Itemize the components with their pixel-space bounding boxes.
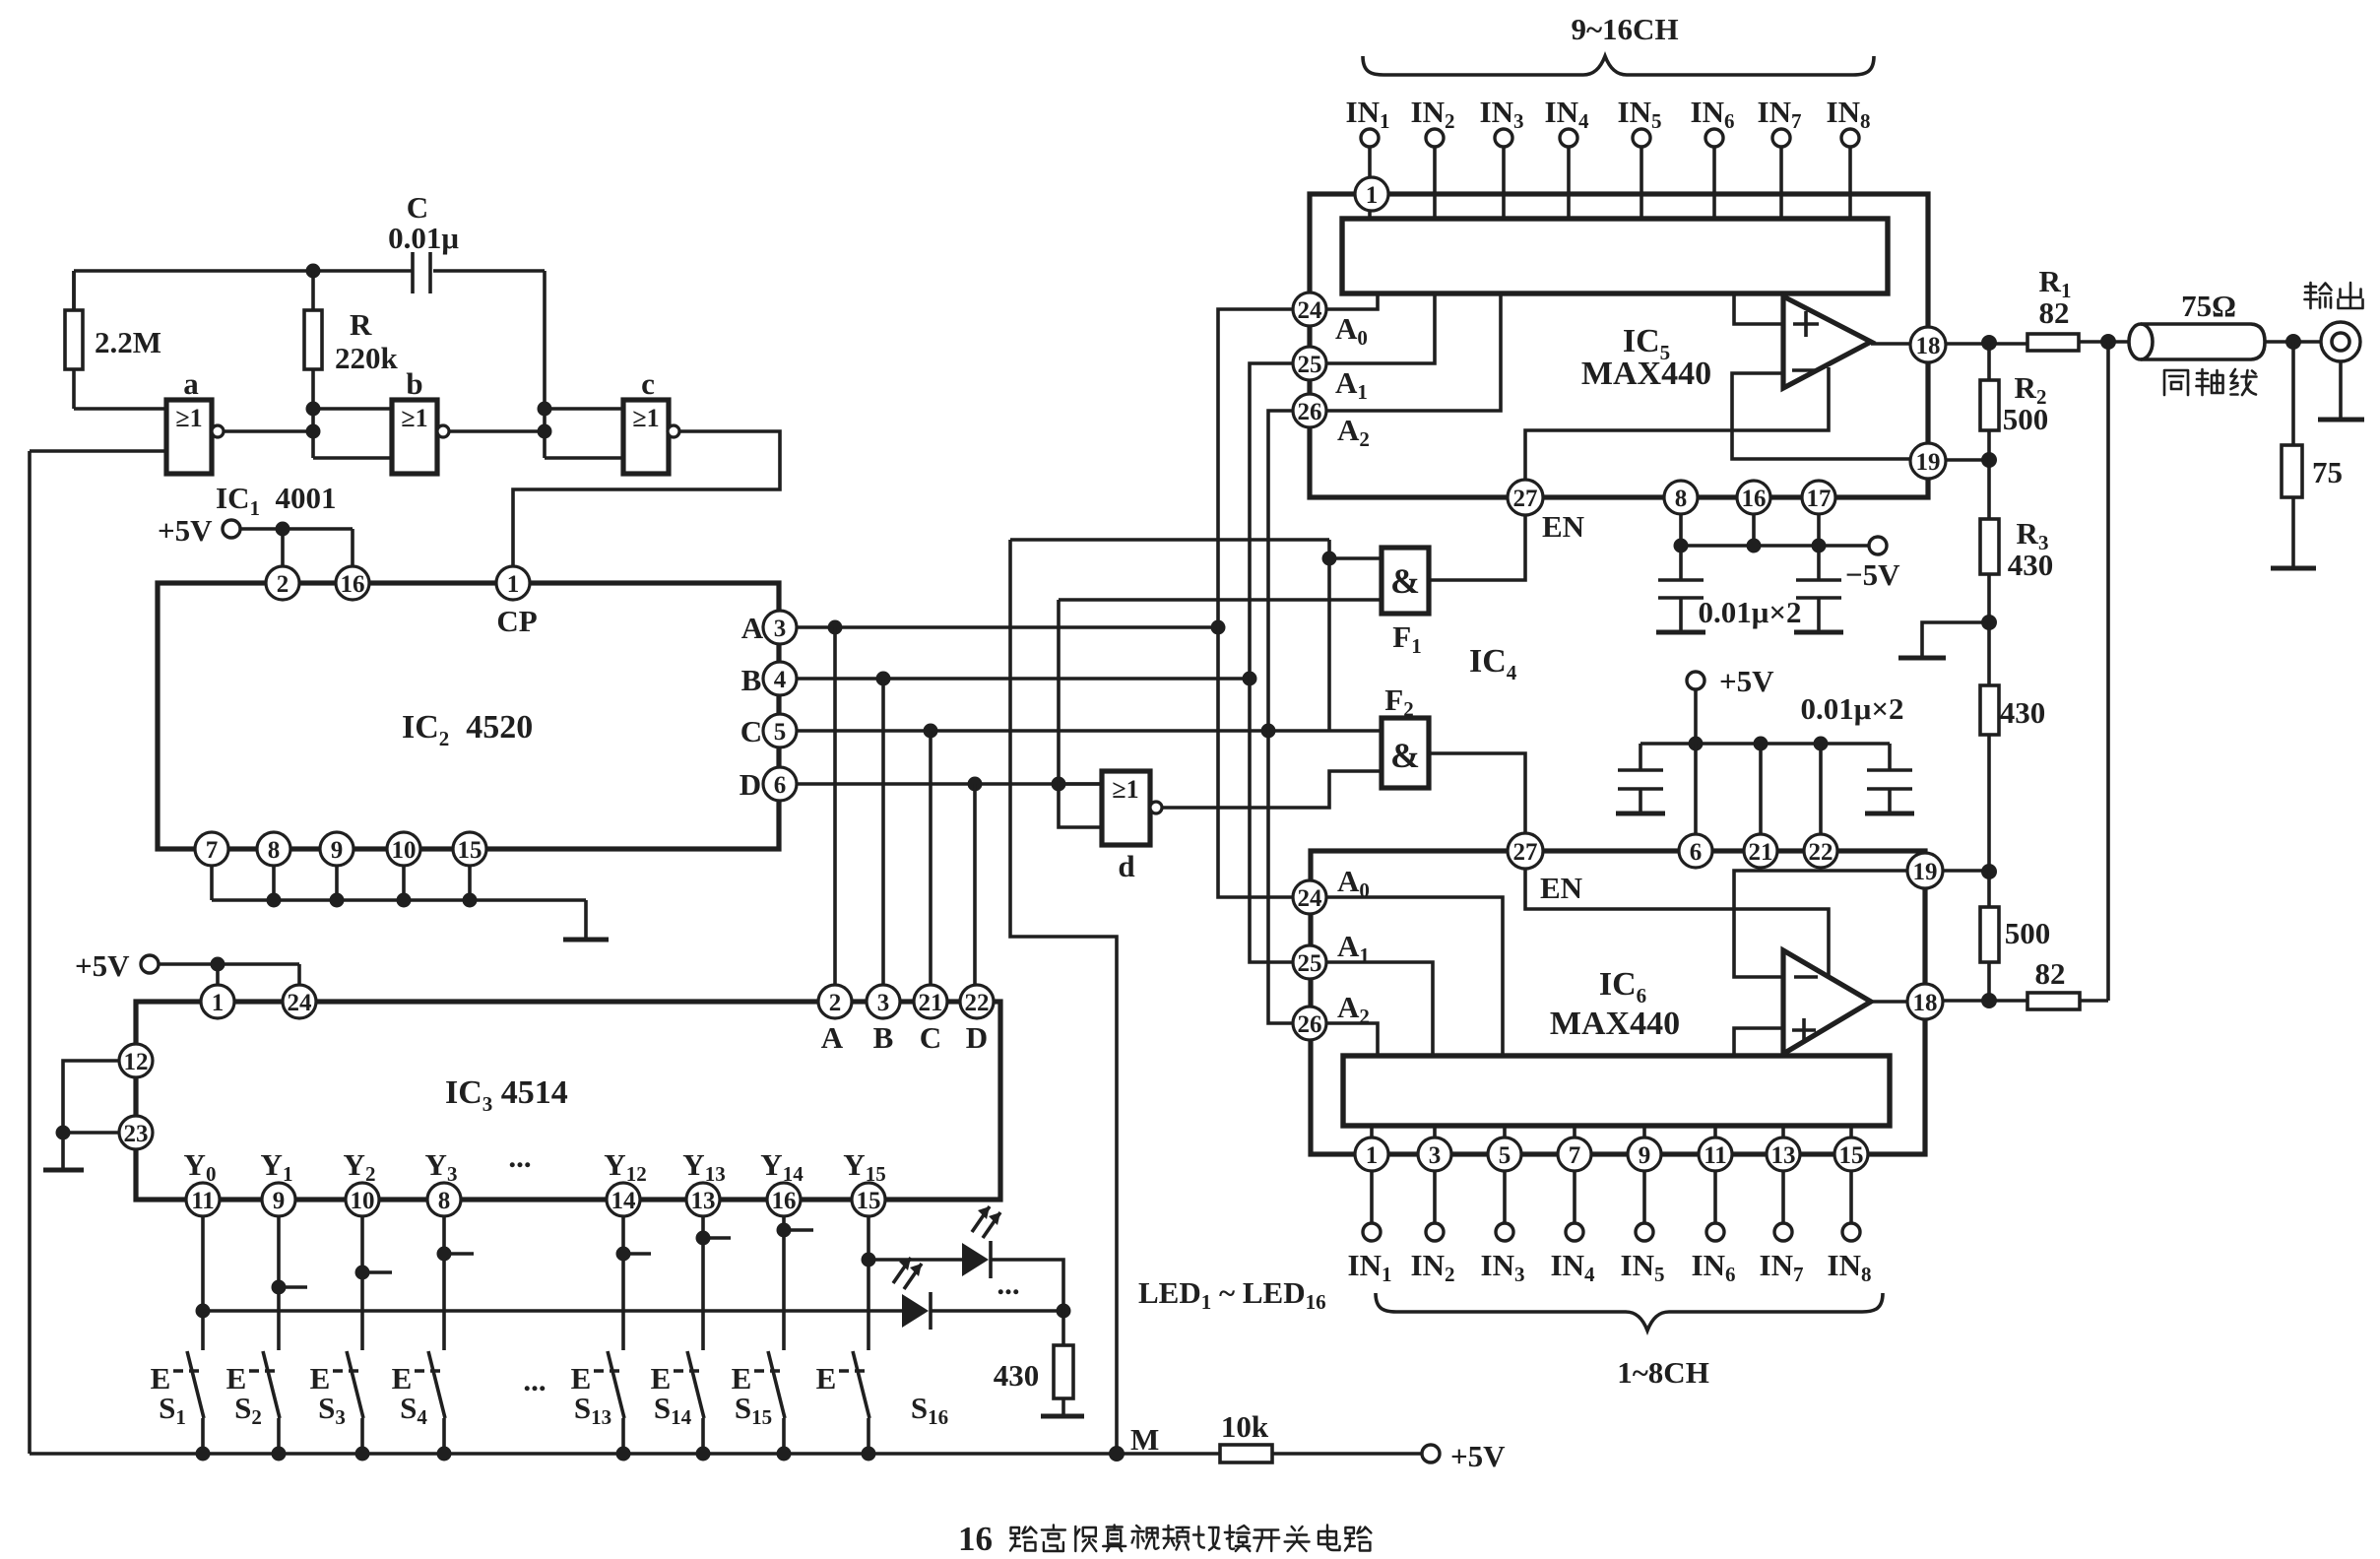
svg-text:MAX440: MAX440 [1581, 356, 1711, 392]
wire Y1 column with tap [272, 1216, 308, 1350]
resistor R3 430 [1980, 460, 2053, 622]
capacitor C6b [1865, 744, 1914, 813]
svg-text:MAX440: MAX440 [1550, 1006, 1680, 1042]
wire mux to opamp + [1734, 293, 1783, 324]
pin 6 IC6 [1679, 834, 1712, 868]
LED bus wire [203, 1304, 1071, 1319]
svg-text:7: 7 [206, 837, 219, 864]
svg-text:M: M [1130, 1422, 1159, 1457]
pin 9 [320, 832, 354, 866]
svg-text:5: 5 [774, 719, 787, 746]
svg-text:6: 6 [1690, 839, 1703, 866]
svg-text:≥1: ≥1 [1112, 775, 1138, 804]
pin 3 B [867, 985, 900, 1055]
node before gate b [306, 402, 393, 459]
wire top feedback rail [74, 271, 545, 310]
wire A2 into mux IC5 [1327, 293, 1501, 411]
op-amp U5 [1783, 296, 1871, 388]
svg-text:24: 24 [288, 990, 313, 1016]
pin B 4 [741, 662, 797, 697]
LED1 diode [962, 1206, 1020, 1301]
wire A1 into mux IC6 [1327, 962, 1433, 1056]
pin 16 [767, 1183, 801, 1216]
wire right riser to lower 82 [2106, 342, 2110, 1001]
svg-text:82: 82 [2035, 956, 2066, 991]
IN1-IN8 top terminals [1361, 129, 1859, 147]
svg-text:21: 21 [919, 990, 943, 1016]
svg-text:EN: EN [1540, 871, 1582, 905]
wire F1 out to IC5 EN [1429, 515, 1525, 580]
svg-text:22: 22 [965, 990, 990, 1016]
pin 7 IC6 [1558, 1137, 1591, 1171]
wire F select vertical [1322, 540, 1383, 731]
svg-text:C: C [740, 714, 762, 748]
pin 19 IC6 [1907, 853, 1943, 888]
svg-text:5: 5 [1499, 1142, 1512, 1169]
wire bus A up-down to IC5/IC6 A0 [1218, 309, 1292, 897]
IN1-IN8 top labels [1346, 95, 1871, 133]
svg-text:&: & [1390, 561, 1420, 601]
ground mid divider [1898, 615, 1997, 658]
wire A2 into mux IC6 [1327, 1023, 1378, 1056]
IC5 labels [1581, 323, 1711, 392]
svg-text:26: 26 [1298, 1011, 1322, 1038]
wire bus B down to IC3 pin3 [881, 679, 885, 984]
wire 10k to +5V [1272, 1452, 1422, 1456]
svg-text:≥1: ≥1 [175, 404, 202, 432]
pin 21 C [914, 985, 947, 1055]
wire Y2 column with tap [355, 1216, 393, 1350]
svg-text:75: 75 [2312, 455, 2343, 489]
svg-text:500: 500 [2005, 916, 2051, 950]
wire row C [797, 724, 1329, 739]
svg-text:C: C [920, 1020, 941, 1055]
svg-text:...: ... [523, 1363, 546, 1397]
switch S13 [571, 1351, 624, 1454]
svg-text:3: 3 [1429, 1142, 1442, 1169]
svg-text:c: c [641, 366, 655, 401]
pin C 5 [740, 714, 797, 748]
label LED1~LED16 [1138, 1275, 1326, 1314]
wire row A [797, 620, 1226, 635]
svg-text:19: 19 [1913, 859, 1938, 885]
svg-text:≥1: ≥1 [401, 404, 427, 432]
wire long left feedback vertical [28, 451, 32, 1454]
svg-text:1: 1 [1366, 1142, 1379, 1169]
wire D tap to F1 [1059, 600, 1382, 784]
svg-text:2.2M: 2.2M [95, 325, 161, 359]
wire row B [797, 672, 1257, 686]
ground LED resistor [1041, 1414, 1084, 1419]
capacitor C 0.01u [388, 190, 459, 293]
+5V terminal IC6 [1687, 664, 1774, 744]
svg-text:1: 1 [212, 990, 225, 1016]
pin 22 D [960, 985, 994, 1055]
brace top [1363, 56, 1874, 75]
svg-text:EN: EN [1542, 509, 1584, 544]
svg-text:24: 24 [1298, 885, 1323, 912]
wire opamp out to pin 18 [1871, 342, 1910, 346]
resistor 500 lower [1980, 872, 2050, 1001]
ground output [2318, 361, 2364, 420]
gate d (NOR) [1059, 771, 1162, 883]
dots between switches [523, 1363, 546, 1397]
pin A 3 [741, 611, 797, 645]
svg-text:&: & [1390, 736, 1420, 775]
+5V terminal IC2 [158, 513, 353, 566]
wire mux to opamp + IC6 [1734, 1028, 1783, 1056]
pin 18 IC5 [1910, 327, 1946, 362]
capacitor C6a [1616, 744, 1665, 813]
svg-text:26: 26 [1298, 399, 1322, 425]
node junction top [306, 264, 321, 279]
wire bus C to IC5/IC6 A2 [1268, 411, 1292, 1023]
IC3 4514 box [136, 1002, 1000, 1200]
resistor R 220k [304, 271, 399, 409]
pin 19 IC5 [1910, 443, 1946, 479]
pin 22 IC6 [1804, 834, 1837, 868]
svg-text:9: 9 [1639, 1142, 1651, 1169]
svg-text:13: 13 [1771, 1142, 1796, 1169]
pin 3 IC6 [1418, 1137, 1451, 1171]
svg-text:82: 82 [2039, 295, 2070, 330]
label coax chinese [2164, 369, 2257, 395]
op-amp U6 [1783, 950, 1871, 1054]
svg-text:17: 17 [1807, 486, 1832, 512]
wire EN to opamp enable [1525, 367, 1829, 480]
svg-text:430: 430 [2008, 548, 2054, 582]
wire feedback to gate a lower input [30, 449, 166, 453]
node M [1109, 1422, 1159, 1462]
pin 16 IC5 [1737, 481, 1770, 514]
+5V terminal IC3 [75, 948, 299, 984]
wire Y15 to LED1 [868, 1258, 962, 1262]
label IC4 [1469, 643, 1517, 684]
pin 21 IC6 [1744, 834, 1777, 868]
ground IC2 [563, 938, 609, 942]
CAPTION [958, 1520, 1371, 1558]
svg-text:430: 430 [994, 1358, 1040, 1393]
wire bus C down to IC3 pin21 [929, 731, 933, 984]
svg-text:10k: 10k [1221, 1409, 1269, 1444]
wire bus A down to IC3 pin2 [833, 627, 837, 984]
svg-text:...: ... [997, 1267, 1019, 1301]
gate F1 (AND) [1382, 548, 1429, 658]
svg-text:8: 8 [268, 837, 281, 864]
pin 9 [262, 1183, 295, 1216]
wire Y14 column with tap [777, 1216, 814, 1350]
svg-text:2: 2 [829, 990, 842, 1016]
resistor 2.2M [65, 271, 161, 409]
pin 23 [119, 1116, 153, 1149]
gate b (NOR) [392, 366, 449, 474]
wire gate d out to F2 [1162, 771, 1382, 808]
pin 15 [453, 832, 486, 866]
pin 11 [186, 1183, 220, 1216]
capacitor C8a [1656, 546, 1705, 632]
resistor 82 lower [2027, 956, 2108, 1009]
pin 13 IC6 [1767, 1137, 1800, 1171]
wire Y13 column with tap [696, 1216, 732, 1350]
svg-text:+5V: +5V [1719, 664, 1774, 698]
pin 10 [346, 1183, 379, 1216]
IC6 labels [1550, 966, 1680, 1042]
label output chinese [2305, 283, 2363, 308]
svg-text:0.01μ: 0.01μ [388, 221, 459, 255]
svg-text:430: 430 [2000, 695, 2046, 730]
wire Y3 column with tap [437, 1216, 475, 1350]
svg-text:0.01μ×2: 0.01μ×2 [1699, 595, 1802, 629]
IC6 mux box [1343, 1056, 1890, 1126]
IN stub wires into mux [1370, 147, 1850, 219]
pin 2 A [818, 985, 852, 1055]
IN1-IN8 bottom terminals [1363, 1223, 1860, 1241]
svg-text:IC3 4514: IC3 4514 [445, 1074, 568, 1116]
svg-text:19: 19 [1916, 449, 1941, 476]
pin 8 [427, 1183, 461, 1216]
resistor 10k [1220, 1409, 1272, 1462]
svg-text:16: 16 [772, 1188, 797, 1214]
svg-text:d: d [1118, 849, 1134, 883]
pin 26 A2 IC6 [1293, 990, 1370, 1040]
svg-text:1: 1 [1366, 182, 1379, 209]
svg-text:15: 15 [857, 1188, 881, 1214]
svg-text:≥1: ≥1 [632, 404, 659, 432]
svg-text:9~16CH: 9~16CH [1571, 12, 1678, 46]
svg-text:1~8CH: 1~8CH [1617, 1355, 1709, 1390]
svg-text:16: 16 [958, 1520, 993, 1558]
svg-text:A: A [741, 611, 764, 645]
pin 17 IC5 [1802, 481, 1835, 514]
svg-text:75Ω: 75Ω [2181, 289, 2236, 323]
resistor R1 82 [2027, 264, 2079, 351]
svg-text:A: A [821, 1020, 844, 1055]
svg-text:10: 10 [392, 837, 417, 864]
pin 18 IC6 [1907, 984, 1943, 1019]
resistor 430 LED [994, 1311, 1073, 1414]
wire bus B to IC5/IC6 A1 [1250, 363, 1292, 962]
wire gate c out to CP [513, 431, 780, 566]
pin 27 EN IC5 [1508, 480, 1584, 544]
+5V terminal M [1422, 1439, 1506, 1473]
switch S4 [392, 1351, 445, 1454]
svg-text:27: 27 [1513, 839, 1538, 866]
pin 11 IC6 [1699, 1137, 1732, 1171]
pin 9 IC6 [1628, 1137, 1661, 1171]
pin 5 IC6 [1488, 1137, 1521, 1171]
wire Y0 column [196, 1216, 211, 1350]
pin 1 CP [496, 566, 538, 638]
wire 2.2M to gate a input [74, 407, 166, 411]
svg-text:7: 7 [1569, 1142, 1581, 1169]
Y labels row [184, 1139, 886, 1186]
svg-text:9: 9 [331, 837, 344, 864]
pin 15 IC6 [1834, 1137, 1868, 1171]
label 9~16CH [1571, 12, 1678, 46]
pin 8 IC5 [1664, 481, 1698, 514]
svg-text:11: 11 [191, 1188, 215, 1214]
wire opamp feedback to pin 19 [1732, 373, 1910, 459]
brace bottom [1376, 1293, 1883, 1331]
pin 15 [852, 1183, 885, 1216]
svg-text:C: C [407, 190, 428, 225]
svg-text:CP: CP [496, 604, 537, 638]
wire A1 into mux IC5 [1327, 293, 1435, 363]
svg-text:18: 18 [1916, 333, 1941, 359]
wire row D [797, 777, 1102, 792]
svg-text:−5V: −5V [1845, 557, 1900, 592]
pin 14 [607, 1183, 640, 1216]
gate c (NOR) [623, 366, 679, 474]
wire LED1 to junction [991, 1260, 1063, 1311]
IC6 mux stubs to pins [1372, 1126, 1851, 1137]
svg-text:0.01μ×2: 0.01μ×2 [1801, 691, 1904, 726]
bottom bus wire [30, 1447, 1220, 1462]
switch S16 [816, 1351, 948, 1454]
pin 10 [387, 832, 420, 866]
LED2 diode [893, 1258, 931, 1330]
svg-text:10: 10 [351, 1188, 375, 1214]
coax 75ohm [2129, 289, 2265, 359]
wire A0 into mux IC6 [1327, 897, 1503, 1056]
wire A0 into mux IC5 [1327, 293, 1378, 309]
output terminal [2321, 322, 2360, 361]
wire pin19 row to R2 [1946, 452, 1997, 468]
wire gate b out to node c [449, 429, 545, 433]
pin 2 [266, 566, 299, 600]
wire EN to opamp enable IC6 [1525, 869, 1829, 975]
capacitor C8b [1794, 546, 1843, 632]
svg-text:3: 3 [774, 616, 787, 642]
svg-text:B: B [741, 663, 762, 697]
pin 1 [201, 985, 234, 1018]
svg-text:1: 1 [507, 571, 520, 598]
svg-text:22: 22 [1809, 839, 1833, 866]
svg-text:11: 11 [1704, 1142, 1727, 1169]
wire IC6 pin18 row [1943, 993, 2027, 1008]
resistor R2 500 [1980, 343, 2048, 460]
svg-text:b: b [406, 366, 422, 401]
IN1-IN8 bottom labels [1348, 1248, 1872, 1286]
IN stub wires bottom [1372, 1171, 1851, 1223]
wire M sense line [1010, 540, 1329, 1454]
wire coax to output [2265, 334, 2321, 350]
pin 27 EN IC6 [1508, 833, 1582, 905]
svg-text:18: 18 [1913, 990, 1938, 1016]
pin D 6 [740, 767, 797, 802]
pin 25 A1 IC6 [1293, 929, 1370, 979]
wire Y12 column with tap [616, 1216, 652, 1350]
svg-text:+5V: +5V [75, 948, 130, 983]
svg-text:25: 25 [1298, 352, 1322, 378]
pin 13 [686, 1183, 720, 1216]
switch S14 [651, 1351, 704, 1454]
label 0.01ux2 IC5 [1699, 595, 1802, 629]
svg-text:2: 2 [277, 571, 289, 598]
pin 24 A0 IC6 [1293, 864, 1370, 914]
svg-text:23: 23 [124, 1121, 149, 1147]
svg-text:a: a [183, 366, 199, 401]
svg-text:15: 15 [458, 837, 482, 864]
IC5 mux box [1342, 219, 1888, 293]
node before gate c [538, 271, 624, 458]
wire rail to pins 6 21 22 [1696, 744, 1821, 833]
svg-text:25: 25 [1298, 950, 1322, 977]
ground 75 [2271, 566, 2316, 571]
svg-text:220k: 220k [335, 341, 399, 375]
wire bus D down to IC3 pin22 [973, 784, 977, 984]
svg-text:9: 9 [273, 1188, 286, 1214]
pin 26 A2 IC5 [1293, 394, 1370, 451]
wire pin18 to R1 [1946, 335, 2027, 351]
svg-text:...: ... [508, 1139, 531, 1174]
resistor 75 [2282, 342, 2343, 566]
svg-text:14: 14 [611, 1188, 637, 1214]
+5V rail wire [1640, 737, 1890, 751]
svg-text:6: 6 [774, 772, 787, 799]
wire F2 out to IC6 EN [1429, 753, 1525, 833]
svg-text:LED1 ~ LED16: LED1 ~ LED16 [1138, 1275, 1326, 1314]
pin 1 IC6 [1355, 1137, 1388, 1171]
wire gate a out to node b [224, 429, 313, 433]
gate F2 (AND) [1382, 682, 1429, 788]
wire IC6 pin19 row [1943, 864, 1997, 879]
switch S3 [310, 1351, 363, 1454]
IC5 outline box [1310, 194, 1928, 497]
switch S15 [732, 1351, 785, 1454]
IC2 4520 box [158, 583, 779, 849]
svg-text:24: 24 [1298, 297, 1323, 324]
svg-text:+5V: +5V [1450, 1439, 1506, 1473]
label 0.01ux2 IC6 [1801, 691, 1904, 726]
resistor 430 lower [1980, 622, 2045, 872]
svg-text:D: D [740, 767, 761, 802]
pin 24 A0 IC5 [1293, 292, 1368, 350]
svg-text:21: 21 [1749, 839, 1773, 866]
svg-text:16: 16 [341, 571, 365, 598]
svg-text:B: B [873, 1020, 894, 1055]
svg-text:+5V: +5V [158, 513, 213, 548]
wire opamp out to pin 18 IC6 [1871, 1000, 1907, 1004]
svg-text:IC1 4001: IC1 4001 [216, 481, 336, 520]
pin 7 [195, 832, 228, 866]
svg-text:500: 500 [2003, 402, 2049, 436]
switch S1 [151, 1351, 204, 1454]
svg-text:8: 8 [438, 1188, 451, 1214]
svg-text:13: 13 [691, 1188, 716, 1214]
switch S2 [226, 1351, 280, 1454]
IC6 outline box [1311, 851, 1925, 1154]
terminal -5V [1845, 537, 1900, 592]
label IC1 4001 [216, 481, 336, 520]
svg-text:16: 16 [1742, 486, 1767, 512]
wire R1 to coax [2079, 334, 2130, 350]
svg-text:8: 8 [1675, 486, 1688, 512]
svg-text:IC2 4520: IC2 4520 [402, 709, 533, 750]
wire supply pins to -5V rail [1674, 514, 1870, 553]
svg-text:27: 27 [1513, 486, 1538, 512]
ground IC3 [43, 1168, 84, 1173]
svg-text:3: 3 [877, 990, 890, 1016]
pin 24 [283, 985, 316, 1018]
wire Y15 column [862, 1216, 876, 1350]
svg-text:E: E [816, 1361, 837, 1396]
wire pins 12 23 to ground [56, 1061, 120, 1168]
svg-text:15: 15 [1839, 1142, 1864, 1169]
svg-text:12: 12 [124, 1049, 149, 1075]
pin 16 [336, 566, 369, 600]
svg-text:D: D [966, 1020, 988, 1055]
